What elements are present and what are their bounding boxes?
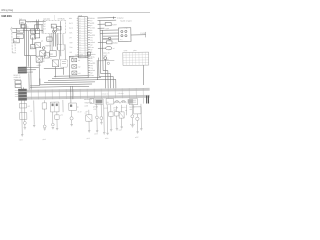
lamp L1 circle: [23, 121, 26, 124]
wire row 4: [98, 28, 109, 30]
svg-text:fusible: fusible: [112, 24, 117, 26]
wire drop b3: [30, 100, 34, 124]
wire under L4: [71, 120, 73, 124]
component E13 box: [134, 107, 142, 114]
svg-text:IAC: IAC: [70, 51, 74, 54]
ECU table row lines: [78, 19, 88, 55]
svg-text:INJ 1: INJ 1: [69, 23, 73, 25]
ground G2: [24, 128, 26, 130]
svg-text:111: 111: [79, 42, 81, 44]
wire right bracket label: [140, 32, 145, 38]
wire under E10: [110, 116, 112, 129]
svg-text:coil assy: coil assy: [118, 93, 124, 95]
fuse F1 box: [16, 28, 23, 33]
wire text rows mid-right: [113, 107, 134, 112]
svg-text:114: 114: [79, 49, 81, 51]
wire run D: [40, 83, 92, 86]
svg-text:fp: fp: [77, 107, 78, 109]
wire drop b1: [21, 101, 24, 135]
wire harness band upper: [24, 88, 150, 93]
ground name label q4: [94, 133, 98, 135]
wire comb verticals: [50, 33, 58, 50]
svg-text:o2: o2: [113, 48, 115, 50]
wire run A: [52, 77, 101, 80]
wire label above dashed box: [43, 19, 50, 21]
ground G15: [103, 133, 105, 135]
svg-text:inj harn 4x: inj harn 4x: [102, 92, 109, 95]
ground G5: [52, 127, 54, 129]
ground G17: [131, 126, 133, 128]
wire header-subtitle-text: [1, 16, 12, 18]
svg-text:grn/yel: grn/yel: [93, 106, 98, 108]
ECU connector table box: [78, 17, 88, 58]
svg-text:O2S: O2S: [69, 42, 72, 44]
wire left tiny label: [10, 29, 12, 31]
ECU header label: [79, 15, 83, 17]
svg-text:IAT: IAT: [69, 36, 71, 39]
wire dashed stub above switch: [53, 15, 55, 20]
relay K5 box with X: [52, 60, 59, 67]
valve V1 box: [47, 37, 52, 41]
svg-text:g101: g101: [19, 139, 23, 141]
wire under L9: [131, 118, 133, 125]
wire under lamp: [24, 124, 26, 127]
ignition coil T2: [121, 100, 126, 103]
wire harness band lower: [24, 95, 150, 100]
lamp L5 circle: [100, 117, 103, 120]
wire vertical run x33: [32, 37, 34, 44]
svg-text:10A: 10A: [17, 35, 20, 38]
wire drops to block2: [22, 87, 24, 89]
wire text between bands a: [102, 92, 109, 95]
ground G12: [110, 129, 112, 131]
svg-text:pnk/blk: pnk/blk: [90, 35, 95, 37]
svg-text:109: 109: [79, 37, 81, 39]
junction box right b: [31, 35, 36, 39]
injector solenoid b: [72, 65, 81, 69]
svg-text:c104: c104: [105, 28, 109, 30]
svg-text:117: 117: [79, 56, 81, 58]
wire under L8: [136, 120, 138, 131]
svg-text:link: link: [26, 26, 29, 28]
wire vertical run x27: [25, 24, 27, 56]
svg-text:EFI: EFI: [50, 54, 53, 56]
svg-text:inj3: inj3: [78, 73, 81, 75]
ground G6: [56, 128, 58, 130]
ground G7: [70, 124, 72, 126]
wire label mid: [45, 44, 51, 47]
component E9 wide box: [106, 98, 113, 104]
svg-text:ballast: ballast: [113, 41, 118, 44]
ground G4: [44, 129, 46, 131]
connector C6 dark block2: [18, 89, 27, 101]
switch S1 dashed enclosure: [43, 20, 66, 34]
svg-text:c120: c120: [37, 65, 41, 67]
wire text small row q3: [125, 110, 127, 112]
wire center text rows: [38, 58, 44, 62]
svg-text:pnk/blk: pnk/blk: [90, 63, 95, 65]
wire text between bands b: [118, 93, 124, 95]
svg-text:c9: c9: [30, 111, 32, 113]
component E8 hatched box: [95, 99, 103, 104]
svg-text:110: 110: [79, 40, 81, 42]
wire text three rows right of E6: [84, 98, 92, 108]
wire vertical x42: [41, 25, 43, 34]
wire text small row q1: [77, 111, 81, 113]
svg-text:f1: f1: [10, 29, 12, 31]
contact block a: [51, 24, 56, 28]
wire drops below dashed box: [53, 32, 61, 56]
ground G14: [136, 132, 138, 134]
wire drop b12: [106, 105, 108, 133]
node sensor circle a: [103, 37, 111, 40]
wire run A0: [54, 75, 88, 78]
ground G18: [140, 129, 142, 131]
module M1 dashed box: [58, 44, 64, 50]
wire bus bend 3: [99, 57, 114, 88]
ground G16: [116, 129, 118, 131]
svg-text:TAC: TAC: [69, 46, 73, 49]
lamp L3 circle: [51, 123, 54, 126]
svg-text:A: A: [85, 17, 86, 20]
ground name label g3: [86, 138, 90, 140]
wire stubs from dark block: [27, 68, 39, 73]
wire header-title-text: [1, 9, 14, 12]
svg-text:112: 112: [79, 44, 81, 46]
contact pivot b: [55, 30, 57, 32]
component E7 box with X: [86, 115, 92, 121]
lamp L8 circle: [136, 117, 139, 120]
wire header-rule: [0, 12, 150, 14]
svg-text:yel/blk: yel/blk: [90, 23, 95, 25]
wire run E: [30, 85, 89, 88]
svg-text:conn: conn: [124, 50, 128, 52]
svg-text:B2: B2: [57, 28, 59, 30]
svg-text:4 6: 4 6: [120, 39, 122, 41]
wire dashed vertical far left: [11, 27, 13, 53]
svg-text:w9: w9: [125, 110, 127, 112]
svg-text:INJ 3: INJ 3: [69, 28, 73, 30]
wire drop b13: [110, 105, 112, 112]
wire under E5: [56, 119, 58, 128]
module M3 box: [69, 56, 88, 78]
svg-text:inj: inj: [107, 102, 109, 104]
node A ignition feed box: [19, 18, 26, 25]
node B splice circle: [42, 47, 45, 50]
wire drop b14: [120, 105, 122, 112]
connector C5 dark block: [18, 67, 27, 74]
relay K6 box with X: [44, 51, 49, 58]
svg-text:iac: iac: [47, 39, 49, 41]
wire drop b9: [85, 110, 89, 115]
svg-text:blk 1.25: blk 1.25: [104, 52, 110, 54]
wire drop b4: [43, 100, 45, 103]
svg-text:blu/red: blu/red: [103, 107, 108, 110]
svg-text:IGN: IGN: [69, 18, 72, 20]
svg-text:115: 115: [79, 52, 81, 54]
wire link y24: [34, 25, 43, 33]
ECU table cell text: [79, 17, 87, 59]
svg-text:15A: 15A: [17, 30, 21, 33]
svg-text:103: 103: [79, 23, 81, 25]
relay K3 box: [50, 50, 56, 56]
svg-text:c77: c77: [60, 115, 63, 117]
svg-text:g107: g107: [119, 129, 123, 131]
wire from connector to right: [131, 34, 146, 36]
wire row y61: [98, 59, 114, 61]
svg-text:m1: m1: [28, 106, 30, 108]
switch S1 inner text rows: [44, 23, 47, 30]
svg-text:RLY: RLY: [14, 41, 18, 43]
svg-text:c41: c41: [85, 111, 88, 113]
svg-text:to eng: to eng: [140, 32, 145, 35]
svg-text:blk/wht: blk/wht: [90, 17, 95, 20]
wire drop b20: [131, 104, 133, 115]
svg-text:104: 104: [79, 25, 81, 27]
injector solenoid c: [72, 71, 81, 75]
wire vertical x38: [36, 22, 38, 31]
svg-text:g105: g105: [94, 133, 98, 135]
junction box right c: [30, 45, 35, 49]
ground G9: [96, 131, 98, 133]
wire drop b10: [95, 104, 98, 130]
wire drop b2: [23, 101, 25, 122]
module M3 right stubs: [88, 58, 96, 77]
wire text rows extra: [103, 106, 126, 110]
svg-text:106: 106: [79, 30, 81, 32]
contact block b: [56, 26, 61, 30]
wire text small row q2: [85, 111, 88, 113]
wire under E12: [121, 118, 123, 126]
wire bus vertical right bend: [100, 20, 111, 88]
ground name label g1: [19, 139, 23, 141]
component E4 double box: [50, 102, 59, 112]
wire drop b8: [70, 110, 72, 116]
wire under E3: [43, 109, 45, 125]
wire small vertical right: [143, 98, 145, 104]
ECU right stubs and wire labels: [87, 17, 96, 59]
component E12 box with X: [119, 112, 124, 118]
svg-text:b+ 12v: b+ 12v: [130, 124, 135, 126]
ground name label g2: [42, 139, 46, 141]
wire joining y68: [44, 67, 64, 69]
svg-text:Wiring Diag: Wiring Diag: [1, 9, 14, 12]
connector C3 label: [125, 28, 128, 30]
wire run C: [44, 81, 95, 84]
ground G10: [100, 123, 102, 125]
component E8b small box: [90, 99, 94, 104]
wire text two rows: [104, 52, 110, 56]
component E2 box: [19, 113, 26, 120]
svg-text:D1: D1: [31, 32, 33, 34]
component E14 small box: [114, 112, 118, 116]
ground G3: [33, 125, 35, 127]
junction box small a: [15, 81, 21, 84]
wire verticals into block: [27, 56, 40, 86]
fuse block under ignition box: [21, 25, 29, 29]
wire under E7: [88, 121, 90, 130]
wire text rows bottom right: [130, 124, 135, 126]
wire vertical pair top: [37, 20, 39, 29]
wire under L5: [100, 120, 102, 123]
wire row oval sensor: [98, 46, 115, 50]
contact pivot a: [52, 30, 54, 32]
wire drop b18: [103, 104, 105, 132]
svg-text:ppl: ppl: [91, 72, 94, 74]
connector C3 face box: [118, 28, 131, 42]
wire inside dashed box: [53, 21, 60, 33]
relay K1 box: [13, 39, 19, 43]
svg-text:red/blu 20: red/blu 20: [14, 77, 21, 79]
ground G1: [21, 135, 23, 137]
wire label lower center: [37, 65, 41, 67]
svg-text:rly: rly: [50, 57, 52, 60]
wire rows into connector C3: [100, 30, 119, 39]
ground G13: [121, 127, 123, 129]
svg-text:g104: g104: [86, 138, 90, 140]
wire label c2b: [41, 39, 44, 42]
wire verticals center: [57, 34, 65, 60]
wire bus bend 4: [97, 60, 116, 89]
svg-text:blk/yel 22: blk/yel 22: [14, 75, 21, 77]
wire dashed branch: [12, 44, 16, 54]
svg-text:C101: C101: [12, 52, 16, 54]
svg-text:101: 101: [79, 18, 81, 20]
svg-text:fig 24: engine: fig 24: engine: [121, 20, 132, 22]
junction box right a: [31, 29, 36, 34]
relay K4 box with X: [36, 56, 42, 62]
connector C2 small box: [35, 34, 40, 38]
svg-text:blk/wht: blk/wht: [45, 44, 51, 47]
wire page connector right: [146, 96, 149, 104]
wire drop b15: [125, 105, 127, 115]
svg-text:113: 113: [79, 47, 81, 49]
svg-text:blu: blu: [90, 30, 92, 32]
module M2 dashed detail box: [60, 60, 67, 68]
svg-text:to starter: to starter: [117, 16, 124, 19]
svg-text:c18: c18: [93, 109, 96, 111]
injector solenoid a: [72, 58, 81, 62]
wire long row 2: [98, 19, 117, 21]
svg-text:inj2: inj2: [78, 66, 81, 68]
ground name label g5: [135, 137, 139, 139]
ground G8: [88, 131, 90, 133]
wire bus vertical right 2 bend: [102, 30, 108, 88]
wire top link to switch: [26, 20, 46, 22]
wire long row 1 label: [117, 16, 124, 19]
component E5 box: [55, 115, 59, 119]
wire drop from ignition box: [22, 24, 25, 56]
ECU left pin labels: [69, 18, 79, 59]
lamp L9 circle: [131, 115, 134, 118]
wire band tick marks: [31, 88, 143, 100]
wire band crossing verticals: [71, 86, 73, 103]
wire under E14: [116, 116, 118, 128]
svg-text:105: 105: [79, 27, 81, 29]
ground G11: [106, 133, 108, 135]
relay K2b box diagonal: [35, 43, 41, 48]
wire vertical run x29: [27, 31, 29, 56]
svg-text:acc: acc: [44, 23, 47, 25]
wire text rows under block: [14, 75, 22, 82]
node small circle y63: [107, 62, 109, 64]
svg-text:dk blu: dk blu: [91, 56, 95, 58]
svg-text:ppl: ppl: [90, 44, 93, 46]
svg-text:wht 2.0: wht 2.0: [121, 106, 126, 109]
wire bus to center: [12, 28, 43, 32]
lamp L4 circle: [70, 117, 73, 120]
wire drop from splice: [104, 60, 106, 89]
wire vertical x36 down: [35, 30, 37, 56]
wire drop b16: [132, 105, 134, 107]
svg-text:w/t: w/t: [41, 39, 44, 42]
svg-text:107: 107: [79, 32, 81, 34]
wire vertical far right: [142, 65, 144, 85]
junction box small b: [15, 84, 21, 87]
svg-text:g106: g106: [105, 138, 109, 140]
wire run left stub: [39, 79, 41, 85]
fuse F2 box: [16, 34, 23, 39]
component E3 box: [42, 103, 47, 109]
wire drop b19: [116, 106, 118, 112]
component E6 box: [69, 103, 79, 111]
wire drop b17: [136, 114, 138, 117]
svg-text:blk 18: blk 18: [77, 111, 81, 113]
svg-text:pins: pins: [133, 50, 136, 52]
wire long row 1: [97, 17, 116, 19]
wire label above dashed box 2: [58, 18, 65, 20]
connector pin grid table: [123, 52, 149, 65]
wire text rows under E8: [93, 106, 98, 110]
wire drop b11: [100, 104, 102, 116]
wire drop b6: [56, 112, 58, 115]
wire drop b5: [52, 112, 54, 123]
wire label: [26, 20, 38, 23]
wire header-right-note: [121, 20, 132, 22]
svg-text:108: 108: [79, 35, 81, 37]
wire drop b21: [140, 104, 142, 129]
ignition coil T1: [114, 101, 119, 104]
ground name label q5: [119, 129, 123, 131]
wire row 3 with box: [98, 22, 117, 26]
svg-text:c140: c140: [84, 105, 88, 107]
svg-text:B1: B1: [52, 26, 54, 28]
wire drop b7: [60, 100, 63, 117]
wire label near K6: [50, 57, 52, 60]
svg-text:inj1: inj1: [78, 60, 81, 62]
module M3 header text: [75, 52, 91, 56]
svg-text:yel 0.8: yel 0.8: [113, 107, 118, 109]
node splice circle right: [104, 57, 107, 60]
svg-text:g108: g108: [135, 137, 139, 139]
wire vertical beside block: [29, 56, 31, 90]
component E11b hatch fill: [128, 99, 133, 103]
svg-text:c61: c61: [130, 109, 133, 111]
wire table header right: [124, 50, 137, 52]
lamp L2 circle: [43, 125, 46, 128]
connector C6 left stubs: [15, 90, 18, 96]
wire link y28: [23, 29, 39, 34]
wire row with resistor box: [98, 41, 118, 45]
ground name label g4: [105, 138, 109, 140]
svg-text:TPS: TPS: [69, 32, 72, 34]
svg-text:D2: D2: [31, 47, 33, 49]
component E11 box: [129, 99, 138, 105]
relay K2 box with coil: [40, 51, 46, 56]
wire run B: [48, 79, 98, 82]
svg-text:102: 102: [79, 20, 81, 22]
svg-text:1998 ENG: 1998 ENG: [1, 16, 12, 18]
